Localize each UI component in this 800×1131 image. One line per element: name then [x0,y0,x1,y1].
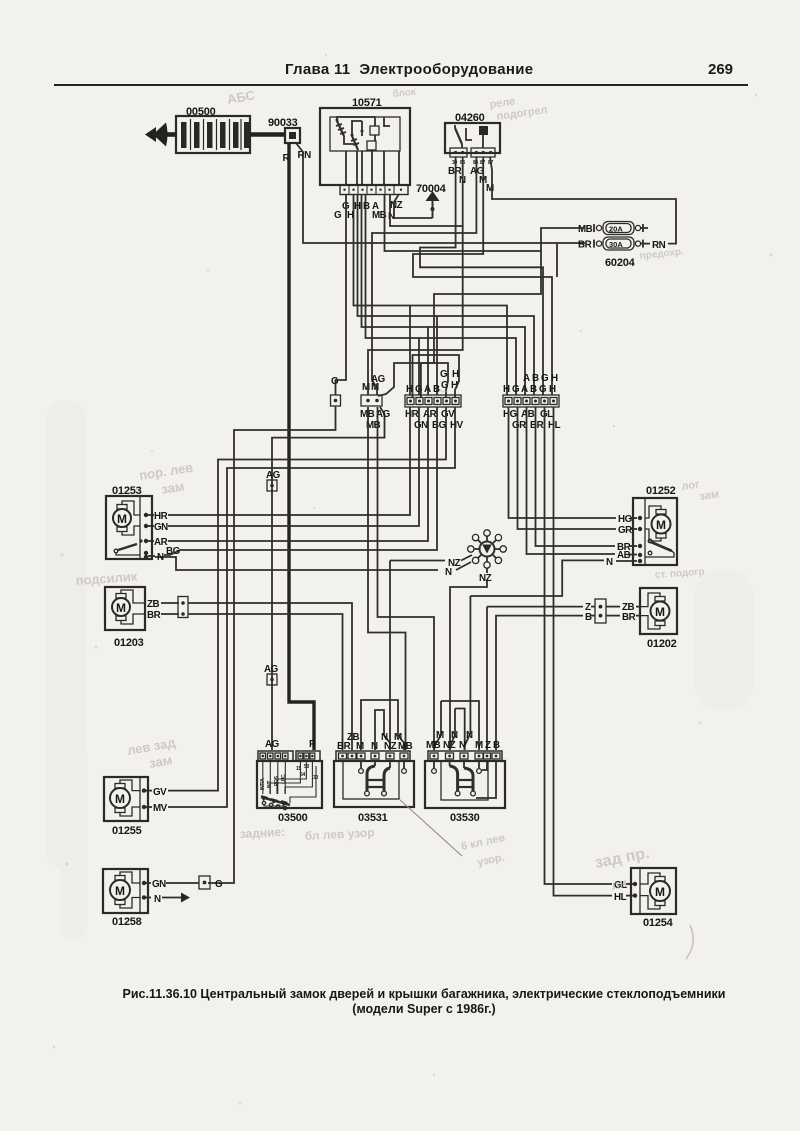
svg-text:B: B [585,612,592,623]
svg-text:G: G [512,384,520,395]
wire ZB 01203 to 03531 [188,603,352,750]
wire NZ star to 03531 [390,560,445,562]
wire B connector to 03530 [496,616,583,750]
left 6pin connector [405,369,464,431]
wire GR to 01252 [518,407,617,529]
wire MB fuse to 10571 MB pin [385,194,586,251]
motor 01253 (front left door lock) [106,485,181,563]
svg-text:N: N [157,552,164,563]
svg-text:АБС: АБС [226,87,257,107]
svg-text:M: M [656,518,666,532]
svg-text:03530: 03530 [450,812,480,824]
svg-text:20A: 20A [609,225,623,234]
svg-text:GV: GV [153,787,167,798]
fuses 60204 [578,222,666,270]
svg-text:M: M [356,741,364,752]
svg-text:GN: GN [154,522,168,533]
svg-text:M: M [475,740,483,751]
svg-text:MV: MV [153,803,168,814]
svg-text:G: G [541,373,549,384]
motor 01255 (left front window) [104,777,168,837]
connector MM 2pin [360,374,391,431]
svg-text:зам: зам [699,488,720,503]
ignition switch 03500 [257,751,322,824]
wire H bus to connectors H pins [354,194,508,395]
wire B bus [358,194,535,395]
svg-text:BR: BR [530,420,544,431]
svg-text:MB: MB [578,224,593,235]
svg-text:NZ: NZ [443,740,456,751]
svg-text:MB: MB [398,741,413,752]
relay 10571 [320,97,410,195]
svg-text:01255: 01255 [112,825,142,837]
wire HV to 01255 [168,407,455,807]
svg-text:01254: 01254 [643,917,674,929]
wire G 10571 to G connector [336,194,347,395]
svg-text:N: N [445,567,452,578]
svg-text:H: H [549,384,556,395]
window switch 03530 [425,751,505,824]
labels above 03531 [337,732,413,752]
wire G below connector to 01258 [208,406,336,883]
svg-text:G: G [331,376,339,387]
04260 pin row [450,148,467,157]
svg-text:лн: лн [610,875,629,893]
svg-text:B: B [433,384,440,395]
svg-text:пор. лев: пор. лев [138,460,194,483]
svg-text:предохр.: предохр. [639,246,684,262]
wire BG to 01253 [164,407,437,555]
wire battery to 90033 [250,132,286,137]
svg-text:AG: AG [371,374,386,385]
wire RN fuse loop to 04260 M pin [490,157,676,244]
labels under 04260 [448,166,494,194]
svg-text:AR: AR [423,409,437,420]
svg-text:AB: AB [521,409,535,420]
connector G single [331,376,341,406]
connector Z/B 2pin [585,599,640,623]
svg-text:бл лев узор: бл лев узор [304,825,374,843]
svg-text:G: G [440,369,448,380]
wire AG 04260 down to MM connector and ignition [372,157,476,395]
svg-text:NZ: NZ [390,200,403,211]
svg-text:HR: HR [154,511,168,522]
svg-text:A: A [424,384,431,395]
svg-text:BR: BR [578,240,592,251]
svg-text:A: A [523,373,530,384]
svg-text:M: M [116,601,126,615]
pi jumper above 03531 N [375,710,390,750]
svg-text:HR: HR [405,409,419,420]
svg-text:M: M [655,605,665,619]
svg-text:N: N [606,557,613,568]
star junction multi-connector [468,530,507,568]
motor 01258 (trunk lock) [103,869,223,928]
svg-text:01258: 01258 [112,916,142,928]
svg-text:BG: BG [166,546,181,557]
svg-text:H: H [551,373,558,384]
wire RN 90033 to fuse row [296,143,585,243]
svg-text:H: H [452,369,459,380]
svg-text:N: N [466,730,473,741]
svg-text:GN: GN [152,879,166,890]
svg-text:BG: BG [432,420,447,431]
wire N link 10571 to 04260 [390,157,463,226]
svg-text:BR: BR [622,612,636,623]
svg-text:N: N [154,894,161,905]
svg-text:B: B [363,201,370,212]
battery left lead with chassis arrow [145,123,177,147]
svg-text:G: G [539,384,547,395]
pi jumper above 03531 M [361,700,404,750]
svg-text:M: M [117,512,127,526]
pi jumper above 03530 M [441,701,479,750]
svg-text:MB: MB [426,740,441,751]
inline connector AG lower [264,664,279,685]
svg-text:G: G [215,879,223,890]
svg-text:03531: 03531 [358,812,388,824]
svg-text:60204: 60204 [605,257,636,269]
svg-text:задние:: задние: [239,825,285,841]
svg-text:HV: HV [450,420,464,431]
inline connector AG upper [266,470,281,491]
wire branch fuse MB down to MM connector [378,251,541,396]
svg-text:01252: 01252 [646,485,676,497]
svg-text:GN: GN [414,420,428,431]
wire AR to 01253 [168,407,428,541]
wire GV to 01255 [168,407,446,791]
motor 01202 (right rear window) [622,588,677,650]
svg-text:01203: 01203 [114,637,144,649]
wire R (thick) 90033 to 03500 [283,143,315,750]
relay pin row [340,185,408,195]
svg-text:N: N [451,730,458,741]
svg-text:G: G [334,210,342,221]
svg-text:GV: GV [441,409,455,420]
wire M 04260 to right connector [413,157,552,395]
wire star bottom to 03530 N pin [486,568,488,573]
svg-text:M: M [655,885,665,899]
svg-text:NZ: NZ [479,573,492,584]
battery 00500 [176,106,250,153]
svg-text:30A: 30A [609,240,623,249]
wire AB to 01252 [527,407,616,554]
relay 04260 [445,112,500,166]
svg-text:GR: GR [512,420,526,431]
svg-text:M: M [115,884,125,898]
svg-text:зам: зам [160,479,185,497]
right 6pin connector [503,373,561,431]
wire A bus [362,194,526,395]
motor 01254 (trunk right / rear lock) [614,868,676,929]
svg-text:AB: AB [617,550,631,561]
svg-text:6 кл лев: 6 кл лев [460,832,506,853]
jumper loops above left connector [413,355,460,397]
wire GN to 01253 [168,407,419,526]
svg-text:HG: HG [618,514,633,525]
wire BR to 01252 [536,407,616,546]
wire Z connector to 03530 [487,606,583,608]
svg-text:HG: HG [503,409,518,420]
wire BR 04260 to right connector [420,157,543,395]
wire AG below MM to ignition switch 03500 [272,407,385,750]
svg-text:M: M [115,792,125,806]
wire HL to 01254 [554,407,613,896]
svg-text:Z: Z [485,740,491,751]
svg-text:узор.: узор. [476,851,506,868]
wire MB below MM to 03531/03530 [368,407,406,750]
labels above 03530 [426,730,500,751]
connector 90033 [268,117,300,143]
window switch 03531 [334,751,462,856]
svg-text:RN: RN [298,150,312,161]
wire MB2 via AG pin to 03530 [378,407,435,750]
wire BR 01203 to 03531 [188,614,343,750]
pi jumper above 03530 N [455,709,465,751]
svg-text:BR: BR [147,610,161,621]
svg-text:N: N [371,741,378,752]
svg-text:A: A [521,384,528,395]
wire HR left connector to 01253 [168,407,410,515]
stub from BR fuse row down [556,244,558,277]
svg-text:B: B [530,384,537,395]
wire M of MM connector to ground chain [368,226,463,395]
labels under 10571 [334,200,403,222]
svg-text:ст. подогр: ст. подогр [654,567,705,581]
svg-text:HL: HL [614,892,627,903]
wire NZ 10571 to ground 70004 [394,194,433,218]
svg-text:B: B [493,740,500,751]
wire GL to 01254 [545,407,613,884]
motor 01203 (left rear window) [105,587,188,649]
svg-text:H: H [503,384,510,395]
wire G2 bus [366,194,517,395]
svg-text:B: B [532,373,539,384]
svg-text:подсилик: подсилик [75,569,138,588]
wire HG right connector to 01252 [509,407,617,518]
svg-text:N: N [459,740,466,751]
svg-text:AG: AG [264,664,279,675]
svg-text:03500: 03500 [278,812,308,824]
svg-text:01202: 01202 [647,638,677,650]
wire N 01253 to star junction [155,557,438,570]
svg-text:блок: блок [392,86,417,100]
svg-text:ZB: ZB [147,599,159,610]
svg-text:GL: GL [540,409,553,420]
motor 01252 (front right door lock) [617,485,677,565]
svg-text:AG: AG [265,739,280,750]
ground 70004 [416,183,447,218]
handwritten pencil notes (photocopy artifacts) [75,86,720,959]
svg-text:GR: GR [618,525,632,536]
svg-text:R: R [309,739,316,750]
svg-text:зам: зам [148,752,173,771]
